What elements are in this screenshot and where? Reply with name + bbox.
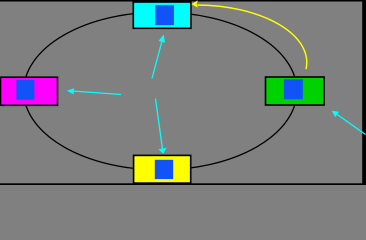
cyan arrow left head (67, 88, 74, 94)
frame bottom border (0, 183, 366, 185)
box bottom (yellow) (134, 155, 191, 183)
blue square in top box (155, 5, 174, 25)
cyan arrow diagonal shaft (bottom-right to green box) (337, 114, 365, 134)
cyan arrow left shaft (74, 91, 121, 94)
frame top border (0, 0, 366, 2)
cyan arrow down head (158, 148, 166, 154)
box top (cyan) (133, 2, 191, 28)
cyan arrow up shaft (152, 42, 162, 79)
blue square in right box (284, 79, 303, 99)
cyan arrow down shaft (156, 99, 163, 149)
cyan arrow diagonal head (332, 111, 339, 117)
frame right border (362, 0, 366, 185)
box left (magenta) (1, 77, 58, 105)
blue square in left box (16, 80, 34, 100)
blue square in bottom box (155, 160, 173, 179)
cyan arrow up head (159, 35, 165, 43)
box right (green) (266, 77, 325, 105)
yellow curved arrow shaft (green box to top box) (198, 5, 307, 69)
ellipse ring (24, 12, 297, 170)
yellow curved arrow head (191, 0, 198, 8)
